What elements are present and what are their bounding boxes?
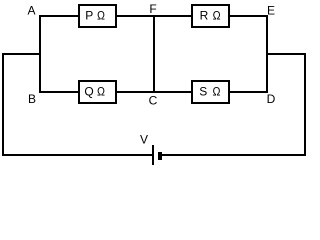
svg-text:A: A: [27, 4, 35, 18]
wire bottom left: [2, 154, 154, 156]
wire right branch: [266, 53, 306, 55]
svg-text:Ω: Ω: [213, 9, 221, 23]
svg-text:F: F: [149, 2, 156, 16]
wire right outer: [304, 53, 306, 156]
wire A to B: [39, 15, 41, 93]
wire C to S: [153, 91, 192, 93]
wire F to C: [153, 15, 155, 93]
resistor S box: [191, 80, 230, 104]
svg-text:Ω: Ω: [97, 85, 105, 99]
svg-text:V: V: [140, 133, 148, 147]
wire E to D: [266, 15, 268, 93]
resistor P box: [78, 4, 117, 28]
battery V long plate: [152, 145, 154, 165]
svg-text:Ω: Ω: [213, 85, 221, 99]
resistor R box: [191, 4, 230, 28]
battery V short plate: [158, 152, 162, 160]
resistor Q box: [78, 80, 117, 104]
wire left branch: [2, 53, 41, 55]
svg-text:C: C: [149, 94, 158, 108]
svg-text:R: R: [200, 9, 209, 23]
svg-text:B: B: [28, 92, 36, 106]
wire P to F: [116, 15, 155, 17]
svg-text:Q: Q: [84, 85, 93, 99]
wire R to E: [228, 15, 268, 17]
svg-text:D: D: [267, 92, 276, 106]
wire S to D: [228, 91, 268, 93]
svg-text:Ω: Ω: [97, 9, 105, 23]
wire F to R: [153, 15, 192, 17]
wire left outer: [2, 53, 4, 156]
wire A to P: [39, 15, 79, 17]
wire bottom right: [161, 154, 306, 156]
wire B to Q: [39, 91, 79, 93]
svg-text:E: E: [267, 4, 275, 18]
wire Q to C: [116, 91, 155, 93]
svg-text:P: P: [85, 9, 93, 23]
svg-text:S: S: [199, 85, 207, 99]
